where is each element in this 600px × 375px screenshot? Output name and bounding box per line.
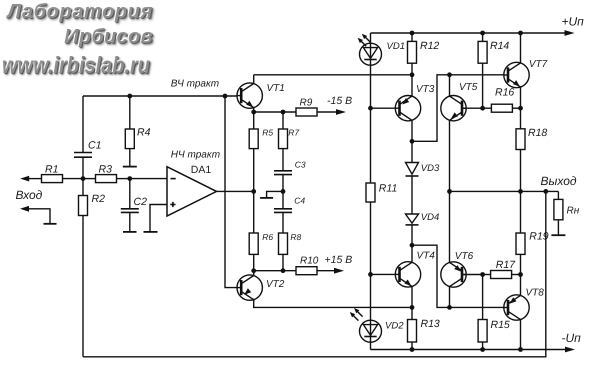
VT5 collector lead [449, 75, 451, 96]
VT3 emitter arrow (PNP) [402, 98, 409, 105]
VT4 emitter lead [411, 287, 413, 308]
junction VT7 collector [518, 31, 523, 36]
resistor R13 [411, 307, 413, 319]
resistor R1 [42, 175, 63, 183]
VT1 emitter arrow [246, 101, 253, 108]
wire VT3 base [371, 107, 396, 109]
resistor R4 [129, 96, 131, 129]
wire VT4 base junction to VD2 [370, 274, 372, 320]
wire output row [450, 190, 559, 192]
svg-text:VD3: VD3 [421, 163, 440, 174]
junction VT1 collector row / R12 / VT3 emitter [410, 72, 415, 77]
resistor R3 [96, 175, 117, 183]
junction VT4 emitter / VT2 collector / R13 [410, 305, 415, 310]
wire R10 row [254, 270, 296, 272]
svg-text:R8: R8 [290, 232, 301, 242]
wire VT1 collector row [254, 74, 412, 76]
wire VT5 base to R16 node [462, 107, 483, 109]
junction VT2 emitter [251, 268, 256, 273]
svg-text:C1: C1 [88, 140, 101, 152]
svg-text:VT6: VT6 [455, 251, 474, 262]
svg-text:R11: R11 [379, 183, 397, 195]
junction R8 bottom [281, 268, 286, 273]
ground bar under R4 [123, 166, 137, 168]
svg-text:R5: R5 [262, 127, 273, 137]
svg-text:C3: C3 [295, 160, 306, 170]
op-amp non-inverting input wire [150, 205, 167, 232]
ground bar (op-amp + input) [144, 231, 158, 233]
VT7 collector lead [520, 33, 522, 63]
junction VD4 / VT4 collector branch [410, 243, 415, 248]
junction R16 / VT7 emitter / R18 [518, 106, 523, 111]
svg-text:VT7: VT7 [529, 59, 548, 70]
wire ВЧ тракт (C1 top to VT1 base) [83, 95, 237, 97]
LED VD2 arrows [351, 314, 358, 321]
wire VT4 base [371, 273, 396, 275]
VT2 collector lead [254, 300, 412, 308]
svg-text:ВЧ тракт: ВЧ тракт [171, 79, 219, 90]
ground bar (mid) [260, 197, 273, 199]
svg-text:R12: R12 [420, 40, 439, 52]
wire VD1 chain top [370, 33, 372, 43]
junction R12 top [410, 31, 415, 36]
watermark: Лаборатория Ирбисов www.irbislab.ru [0, 0, 153, 51]
resistor R12 [411, 33, 413, 41]
capacitor C1 [82, 96, 84, 153]
VT6 collector lead [449, 287, 451, 308]
junction VT4 base [368, 272, 373, 277]
wire R1 to node A [63, 178, 84, 180]
ground bar (input) [44, 223, 57, 225]
svg-text:R1: R1 [45, 164, 58, 176]
transistor VT6 body [441, 262, 466, 287]
junction R13 bottom [410, 347, 415, 352]
svg-text:R7: R7 [288, 127, 299, 137]
svg-text:-Uп: -Uп [562, 331, 582, 345]
resistor R11 [366, 183, 375, 202]
VT8 emitter arrow (PNP) [510, 297, 517, 304]
wire input to R1 [29, 178, 42, 180]
capacitor C4 [282, 191, 284, 208]
junction VT5 collector [447, 72, 452, 77]
VT5 emitter lead (to VT6 emitter) [449, 120, 451, 262]
svg-text:Rн: Rн [567, 206, 580, 217]
resistor R5 [253, 112, 255, 129]
VT3 emitter lead [411, 75, 413, 96]
capacitor C2 [129, 179, 131, 209]
wire VT3 base junction to R11 [370, 108, 372, 183]
svg-text:R10: R10 [300, 256, 319, 267]
wire node B to op-amp inverting input [130, 178, 167, 180]
svg-text:VD2: VD2 [385, 320, 404, 331]
svg-text:R14: R14 [490, 40, 509, 52]
resistor R19 [520, 191, 522, 233]
svg-text:+Uп: +Uп [562, 14, 585, 28]
VT7 emitter lead [520, 87, 522, 108]
VT1 emitter lead [253, 108, 255, 112]
svg-text:VD1: VD1 [387, 41, 405, 52]
riser wire (bases / op-amp node) [223, 94, 228, 99]
junction R18 R19 [518, 189, 523, 194]
VT4 collector lead [411, 245, 413, 262]
node B junction [127, 176, 132, 181]
VT7 emitter arrow [513, 80, 520, 87]
wire R5 to output node [253, 149, 255, 192]
wire +Uп rail [371, 32, 566, 34]
VT5 emitter arrow [451, 112, 458, 119]
op-amp output wire [217, 190, 254, 192]
svg-text:VT3: VT3 [416, 84, 435, 95]
arrow +15 В [334, 268, 344, 274]
mid ground stub wire [267, 191, 283, 198]
svg-text:VT5: VT5 [459, 82, 478, 93]
svg-text:C2: C2 [134, 196, 148, 208]
junction R19 bottom / R17 / VT8 emitter [518, 272, 523, 277]
transistor VT2 body [237, 275, 262, 300]
wire R3 to node B [117, 178, 130, 180]
svg-text:VT2: VT2 [266, 279, 285, 290]
resistor R2 [82, 179, 84, 196]
VT8 collector lead [520, 320, 522, 350]
wire emitter row to R9 [254, 111, 296, 113]
wire node A to R3 [83, 178, 96, 180]
resistor R6 [253, 191, 255, 233]
junction R7 top [281, 110, 286, 115]
diode VD3 [411, 141, 413, 162]
resistor R8 [279, 233, 288, 254]
junction R4 top [127, 94, 132, 99]
junction VT1 emitter [251, 110, 256, 115]
svg-text:R15: R15 [491, 319, 510, 331]
junction R14 top [480, 31, 485, 36]
wire R2 to feedback bottom [82, 216, 84, 357]
resistor R18 [520, 108, 522, 129]
wire VT6 base to R17 [462, 274, 483, 276]
transistor VT5 body [441, 96, 466, 121]
svg-text:-15 В: -15 В [327, 95, 352, 107]
svg-text:R18: R18 [528, 127, 547, 139]
svg-text:R4: R4 [137, 127, 151, 139]
transistor VT7 body [504, 62, 529, 87]
wire input ground [29, 209, 50, 224]
junction VT3 collector branch [410, 139, 415, 144]
resistor R9 [296, 108, 317, 116]
junction VT8 collector on rail [518, 347, 523, 352]
svg-text:VT4: VT4 [417, 251, 436, 262]
svg-text:НЧ тракт: НЧ тракт [171, 149, 220, 160]
VT1 collector lead [253, 75, 255, 84]
svg-text:VD4: VD4 [421, 212, 439, 223]
resistor R16 [491, 104, 512, 112]
svg-text:DA1: DA1 [191, 164, 212, 176]
ground bar under Rн [551, 234, 565, 236]
transistor VT8 body [504, 295, 529, 320]
wire R10 to +15V arrow [317, 270, 335, 272]
svg-text:R3: R3 [99, 164, 113, 176]
diode VD4 [411, 176, 413, 214]
svg-text:R16: R16 [495, 86, 514, 98]
wire VD2 to -Uп rail [370, 342, 372, 349]
junction C3 C4 ground node [281, 189, 286, 194]
VT2 emitter lead [253, 271, 255, 276]
load resistor Rн [557, 191, 559, 199]
wire R11 to VT4 base junction [370, 202, 372, 274]
VT6 emitter arrow (PNP) [454, 265, 461, 272]
wire R7 to C3 [282, 149, 284, 171]
svg-text:R2: R2 [92, 193, 106, 205]
resistor R14 [482, 33, 484, 41]
junction R15 top / R17 left [480, 272, 485, 277]
arrow -15 В [336, 109, 346, 115]
svg-text:VT8: VT8 [526, 287, 545, 298]
VT8 emitter lead [520, 275, 522, 296]
arrow -Uп rail [565, 347, 575, 353]
resistor R15 [482, 275, 484, 320]
resistor R7 [282, 112, 284, 129]
node A junction [81, 176, 86, 181]
LED VD2 [360, 320, 382, 342]
VT3 collector lead [411, 120, 413, 141]
svg-text:R6: R6 [262, 232, 273, 242]
op-amp DA1 [167, 167, 217, 216]
feedback wire (output to R2) [83, 191, 546, 356]
svg-text:R9: R9 [300, 98, 313, 109]
VT2 emitter arrow [244, 288, 251, 295]
svg-text:VT1: VT1 [267, 83, 285, 94]
junction feedback riser [543, 189, 548, 194]
junction VT3 base [368, 106, 373, 111]
transistor VT3 body [395, 96, 420, 121]
capacitor C3 [274, 170, 292, 172]
junction R15 bottom [480, 347, 485, 352]
svg-text:+15 В: +15 В [325, 254, 353, 266]
transistor VT1 body [237, 83, 262, 108]
arrow +Uп rail [565, 30, 575, 36]
wire VT3 collector to VT7 base riser [412, 75, 504, 142]
LED VD1 [360, 43, 382, 65]
VT4 emitter arrow [404, 280, 411, 287]
junction VT6 collector [447, 305, 452, 310]
transistor VT4 body [395, 262, 420, 287]
resistor R10 [296, 267, 317, 275]
LED VD1 arrows [359, 39, 366, 46]
input ground arrow [20, 206, 29, 212]
resistor R17 [491, 271, 512, 279]
svg-text:R13: R13 [421, 318, 440, 330]
svg-text:Вход: Вход [16, 188, 43, 202]
svg-text:C4: C4 [294, 196, 305, 206]
junction op-amp output / R5 R6 [251, 189, 256, 194]
svg-text:R17: R17 [496, 259, 516, 271]
ground bar under C2 [123, 231, 137, 233]
input arrow (Вход) [20, 176, 29, 182]
wire R9 to -15V arrow [317, 111, 337, 113]
wire -Uп rail [371, 349, 567, 351]
wire VD4 branch to VT8 base riser [412, 245, 504, 307]
junction R14 bottom / VT5 base / R16 [480, 106, 485, 111]
svg-text:Выход: Выход [541, 174, 577, 188]
wire VD1 to VT3 base junction [370, 65, 372, 108]
junction driver emitters / output wire [447, 189, 452, 194]
